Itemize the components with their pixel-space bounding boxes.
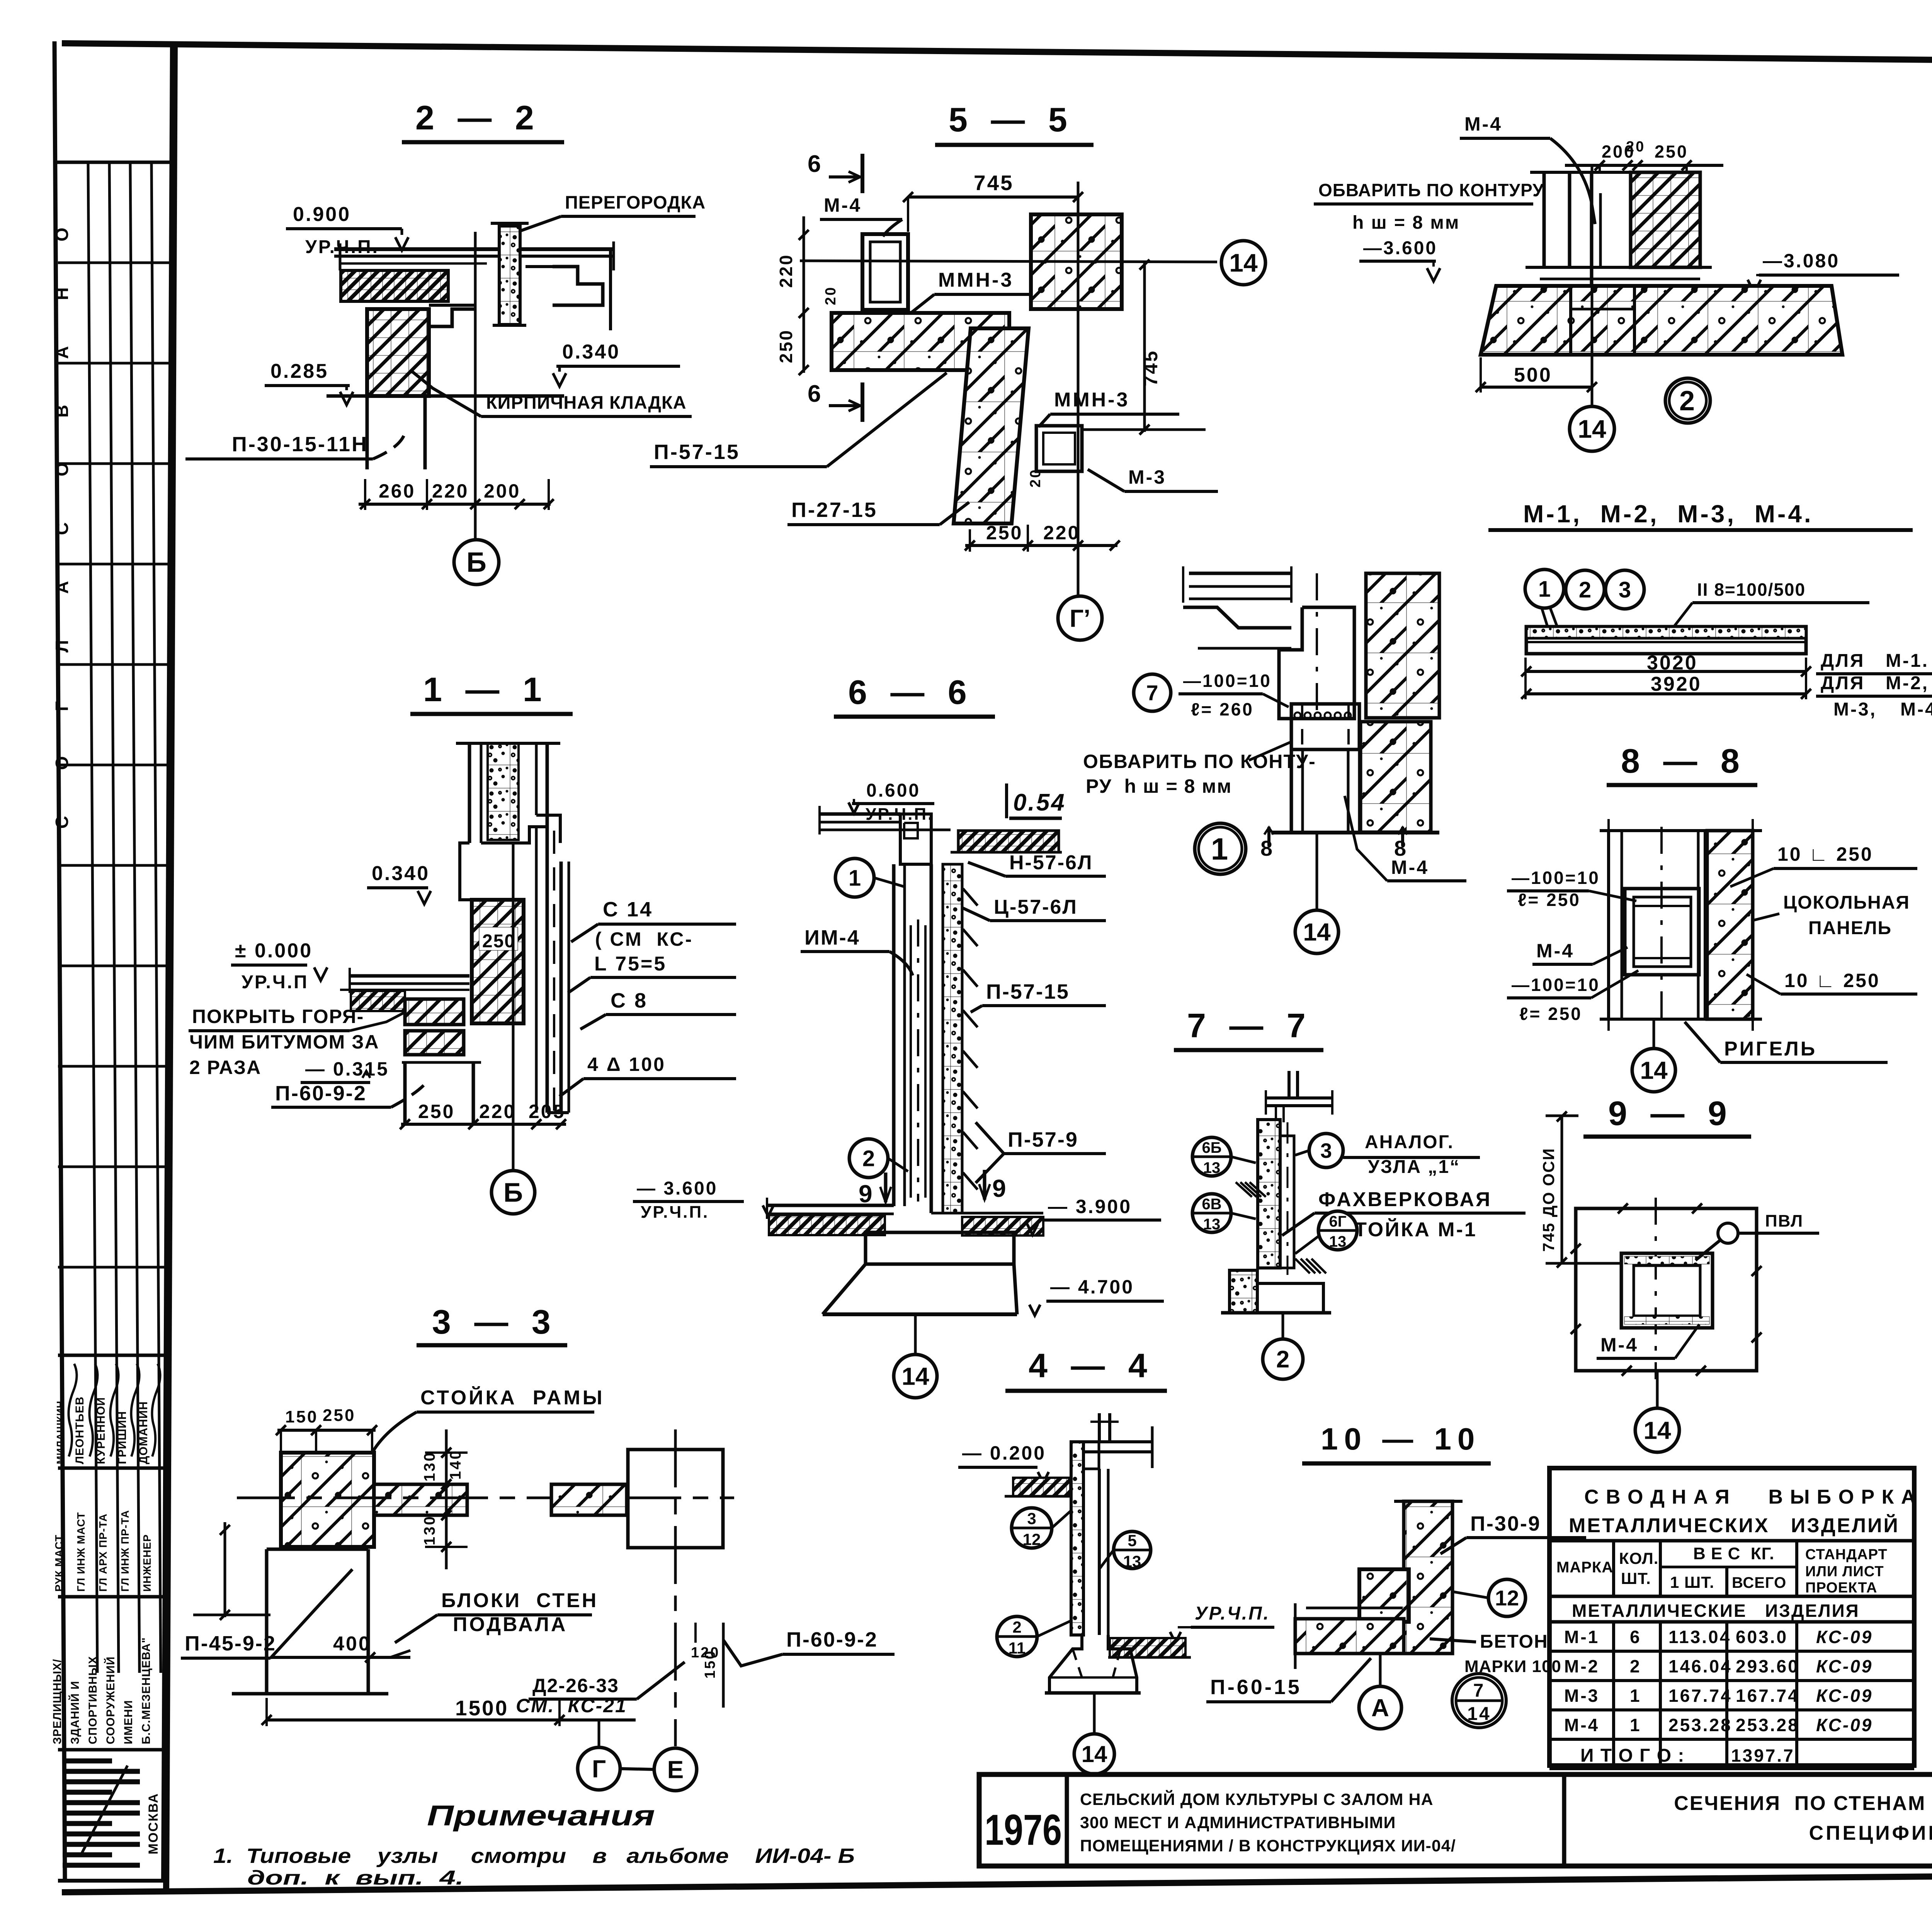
svg-text:2 — 2: 2 — 2 <box>415 99 541 137</box>
svg-text:13: 13 <box>1329 1233 1347 1250</box>
svg-text:П-60-9-2: П-60-9-2 <box>786 1628 878 1651</box>
svg-text:ГЛ ИНЖ ПР-ТА: ГЛ ИНЖ ПР-ТА <box>119 1510 131 1592</box>
svg-text:ℓ= 250: ℓ= 250 <box>1518 890 1581 910</box>
svg-text:МОСКВА: МОСКВА <box>146 1793 161 1855</box>
svg-text:ГЛ ИНЖ МАСТ: ГЛ ИНЖ МАСТ <box>75 1512 87 1592</box>
svg-text:КС-09: КС-09 <box>1816 1715 1873 1735</box>
svg-text:— 0.315: — 0.315 <box>305 1058 389 1080</box>
svg-text:Л: Л <box>52 639 72 653</box>
svg-text:ЗДАНИЙ И: ЗДАНИЙ И <box>68 1681 82 1744</box>
svg-text:М-4: М-4 <box>1536 940 1574 962</box>
svg-text:7: 7 <box>1473 1681 1485 1701</box>
svg-text:—100=10: —100=10 <box>1512 975 1600 995</box>
svg-text:7: 7 <box>1146 681 1158 705</box>
svg-text:ИЛИ ЛИСТ: ИЛИ ЛИСТ <box>1805 1564 1884 1580</box>
svg-text:С: С <box>52 521 72 535</box>
svg-text:А: А <box>52 345 72 359</box>
svg-text:БЛОКИ СТЕН: БЛОКИ СТЕН <box>441 1589 598 1612</box>
svg-text:МАРКА: МАРКА <box>1556 1559 1613 1576</box>
svg-text:СООРУЖЕНИЙ: СООРУЖЕНИЙ <box>104 1656 117 1744</box>
svg-text:ДОМАНИН: ДОМАНИН <box>137 1401 150 1464</box>
svg-text:0.900: 0.900 <box>293 203 351 226</box>
svg-text:О: О <box>52 461 72 476</box>
svg-text:М-1, М-2, М-3, М-4.: М-1, М-2, М-3, М-4. <box>1523 500 1813 528</box>
table svodnaya vyborka <box>1549 1468 1914 1766</box>
svg-text:14: 14 <box>1578 415 1606 443</box>
svg-text:ЛЕОНТЬЕВ: ЛЕОНТЬЕВ <box>73 1396 86 1464</box>
svg-text:ММН-3: ММН-3 <box>938 269 1014 291</box>
svg-text:П-45-9-2: П-45-9-2 <box>185 1632 276 1655</box>
svg-text:В Е С КГ.: В Е С КГ. <box>1693 1544 1774 1563</box>
svg-text:УР.Ч.П.: УР.Ч.П. <box>641 1203 709 1222</box>
svg-text:СЕЧЕНИЯ ПО СТЕНАМ ПОДВАЛА.: СЕЧЕНИЯ ПО СТЕНАМ ПОДВАЛА. УЗЛЫ. <box>1674 1792 1932 1815</box>
svg-text:О: О <box>52 755 72 770</box>
svg-text:6: 6 <box>808 381 822 407</box>
svg-text:ℓ= 260: ℓ= 260 <box>1191 699 1254 719</box>
svg-text:1: 1 <box>1538 576 1551 602</box>
svg-text:СМ. КС-21: СМ. КС-21 <box>516 1695 627 1716</box>
svg-text:П-30-9: П-30-9 <box>1470 1512 1541 1535</box>
svg-text:ГЛ АРХ ПР-ТА: ГЛ АРХ ПР-ТА <box>97 1513 109 1592</box>
svg-text:400: 400 <box>333 1633 371 1655</box>
svg-text:250: 250 <box>418 1101 455 1122</box>
svg-text:Б: Б <box>503 1178 523 1208</box>
svg-text:2: 2 <box>1630 1656 1641 1676</box>
svg-text:1. Типовые узлы смотри: 1. Типовые узлы смотри в альбоме ИИ-04- … <box>213 1844 855 1868</box>
svg-text:БЕТОН: БЕТОН <box>1480 1631 1548 1652</box>
svg-text:8: 8 <box>1260 836 1274 860</box>
svg-text:РИГЕЛЬ: РИГЕЛЬ <box>1724 1038 1817 1060</box>
svg-text:6Г: 6Г <box>1329 1213 1347 1230</box>
svg-text:2: 2 <box>1276 1346 1289 1373</box>
sheet frame <box>62 43 1932 66</box>
svg-text:С: С <box>52 814 72 829</box>
svg-text:УР.Ч.П.: УР.Ч.П. <box>305 237 379 257</box>
svg-text:500: 500 <box>1514 364 1552 386</box>
svg-text:А: А <box>1371 1694 1389 1722</box>
svg-text:12: 12 <box>1495 1586 1519 1610</box>
svg-text:М-4: М-4 <box>1600 1334 1638 1356</box>
svg-text:745: 745 <box>974 171 1014 195</box>
svg-text:150: 150 <box>285 1407 318 1426</box>
svg-text:14: 14 <box>901 1362 929 1390</box>
svg-text:0.340: 0.340 <box>372 862 430 885</box>
svg-text:20: 20 <box>823 286 839 305</box>
svg-text:220: 220 <box>776 253 796 288</box>
svg-text:М-4.: М-4. <box>1900 699 1932 720</box>
svg-text:Г: Г <box>52 700 72 711</box>
svg-text:14: 14 <box>1303 918 1331 946</box>
svg-text:6В: 6В <box>1202 1196 1221 1213</box>
svg-text:П-57-15: П-57-15 <box>986 980 1070 1003</box>
svg-text:М-1.: М-1. <box>1886 651 1929 671</box>
svg-text:3920: 3920 <box>1651 673 1702 695</box>
svg-text:1976: 1976 <box>985 1806 1062 1854</box>
svg-text:1: 1 <box>849 865 861 891</box>
svg-text:—3.600: —3.600 <box>1363 238 1437 258</box>
svg-text:1 ШТ.: 1 ШТ. <box>1670 1573 1714 1591</box>
svg-text:В: В <box>52 403 72 418</box>
svg-text:доп. к вып. 4.: доп. к вып. 4. <box>247 1867 464 1889</box>
svg-text:140: 140 <box>447 1449 464 1480</box>
svg-text:6: 6 <box>808 151 822 177</box>
svg-text:ДЛЯ: ДЛЯ <box>1821 673 1865 693</box>
svg-text:— 0.200: — 0.200 <box>962 1442 1046 1464</box>
svg-text:МЕТАЛЛИЧЕСКИЕ ИЗДЕЛИЯ: МЕТАЛЛИЧЕСКИЕ ИЗДЕЛИЯ <box>1572 1601 1860 1621</box>
svg-text:14: 14 <box>1229 248 1258 277</box>
svg-text:1: 1 <box>1630 1715 1641 1735</box>
svg-text:ПАНЕЛЬ: ПАНЕЛЬ <box>1808 918 1892 938</box>
svg-text:300 МЕСТ И АДМИНИСТРАТИВНЫМИ: 300 МЕСТ И АДМИНИСТРАТИВНЫМИ <box>1080 1813 1396 1832</box>
svg-text:ГРИШИН: ГРИШИН <box>116 1411 129 1464</box>
svg-text:КИРПИЧНАЯ КЛАДКА: КИРПИЧНАЯ КЛАДКА <box>486 392 687 413</box>
svg-text:П-60-15: П-60-15 <box>1210 1676 1302 1699</box>
svg-text:14: 14 <box>1640 1056 1668 1084</box>
svg-text:Г: Г <box>592 1755 606 1783</box>
svg-text:1: 1 <box>1211 832 1230 866</box>
svg-text:ЦОКОЛЬНАЯ: ЦОКОЛЬНАЯ <box>1783 892 1910 913</box>
svg-text:11: 11 <box>1009 1639 1026 1657</box>
svg-text:КУРЕННОЙ: КУРЕННОЙ <box>94 1397 107 1464</box>
svg-text:3 — 3: 3 — 3 <box>432 1303 558 1341</box>
svg-text:ПОМЕЩЕНИЯМИ / В КОНСТРУКЦИЯХ И: ПОМЕЩЕНИЯМИ / В КОНСТРУКЦИЯХ ИИ-04/ <box>1080 1837 1456 1855</box>
svg-text:Ц-57-6Л: Ц-57-6Л <box>994 896 1078 918</box>
svg-text:ℓ= 250: ℓ= 250 <box>1519 1004 1582 1024</box>
node 1 detail <box>1189 572 1291 575</box>
svg-text:— 4.700: — 4.700 <box>1050 1276 1134 1298</box>
svg-text:СТОЙКА РАМЫ: СТОЙКА РАМЫ <box>420 1386 605 1409</box>
svg-text:УР.Ч.П: УР.Ч.П <box>241 972 309 992</box>
svg-text:РУ h ш = 8 мм: РУ h ш = 8 мм <box>1086 775 1232 797</box>
svg-text:ПОДВАЛА: ПОДВАЛА <box>453 1613 567 1636</box>
svg-text:10 — 10: 10 — 10 <box>1321 1422 1481 1456</box>
svg-text:3: 3 <box>1619 577 1631 602</box>
svg-text:КОЛ.: КОЛ. <box>1619 1549 1658 1567</box>
svg-text:253.28: 253.28 <box>1668 1715 1732 1735</box>
svg-text:Б: Б <box>466 547 486 578</box>
svg-text:200: 200 <box>484 480 520 502</box>
svg-text:146.04: 146.04 <box>1668 1656 1732 1676</box>
svg-text:2: 2 <box>862 1146 875 1171</box>
svg-text:— 3.900: — 3.900 <box>1048 1196 1132 1217</box>
svg-text:—3.080: —3.080 <box>1763 250 1840 272</box>
svg-text:20: 20 <box>1027 468 1044 488</box>
svg-text:0.340: 0.340 <box>562 341 620 363</box>
svg-text:9 — 9: 9 — 9 <box>1608 1094 1734 1132</box>
svg-text:ДЛЯ: ДЛЯ <box>1821 651 1865 671</box>
svg-text:Д2-26-33: Д2-26-33 <box>532 1675 619 1696</box>
svg-text:8 — 8: 8 — 8 <box>1621 742 1747 780</box>
svg-text:ИМЕНИ: ИМЕНИ <box>122 1700 135 1744</box>
svg-text:220: 220 <box>479 1101 516 1122</box>
svg-text:130: 130 <box>421 1515 438 1545</box>
svg-text:О: О <box>52 226 72 241</box>
svg-text:5: 5 <box>1128 1531 1136 1550</box>
svg-text:КС-09: КС-09 <box>1816 1656 1873 1676</box>
svg-text:—100=10: —100=10 <box>1183 671 1272 691</box>
svg-text:РУК МАСТ: РУК МАСТ <box>53 1535 65 1592</box>
svg-text:ПВЛ: ПВЛ <box>1765 1212 1803 1230</box>
svg-text:М-4: М-4 <box>1564 1715 1599 1735</box>
svg-text:2 РАЗА: 2 РАЗА <box>189 1057 261 1078</box>
svg-text:113.04: 113.04 <box>1668 1627 1731 1647</box>
svg-text:9: 9 <box>992 1174 1008 1202</box>
svg-text:6 — 6: 6 — 6 <box>848 673 974 711</box>
svg-text:А: А <box>52 580 72 594</box>
svg-text:3: 3 <box>1027 1509 1036 1528</box>
svg-text:КС-09: КС-09 <box>1816 1686 1873 1706</box>
svg-text:0.54: 0.54 <box>1013 789 1066 816</box>
svg-text:745: 745 <box>1140 350 1162 386</box>
svg-text:250: 250 <box>986 522 1023 544</box>
svg-text:3: 3 <box>1320 1139 1332 1162</box>
svg-text:И Т О Г О :: И Т О Г О : <box>1580 1745 1685 1766</box>
svg-text:ФАХВЕРКОВАЯ: ФАХВЕРКОВАЯ <box>1318 1188 1492 1211</box>
svg-text:СТАНДАРТ: СТАНДАРТ <box>1805 1547 1888 1563</box>
svg-text:П-57-15: П-57-15 <box>654 440 740 464</box>
svg-text:250: 250 <box>1655 142 1688 161</box>
svg-text:205: 205 <box>529 1101 565 1122</box>
svg-text:13: 13 <box>1203 1159 1221 1176</box>
svg-text:С 8: С 8 <box>611 989 648 1012</box>
svg-text:П-27-15: П-27-15 <box>791 498 878 522</box>
svg-text:13: 13 <box>1203 1216 1221 1233</box>
title block <box>979 1774 1932 1866</box>
svg-text:КС-09: КС-09 <box>1816 1627 1873 1647</box>
svg-text:ИНЖЕНЕР: ИНЖЕНЕР <box>141 1534 153 1592</box>
svg-text:М-3: М-3 <box>1564 1686 1599 1706</box>
svg-text:М-4: М-4 <box>1464 113 1502 135</box>
svg-text:( СМ КС-: ( СМ КС- <box>595 928 693 950</box>
svg-text:СТОЙКА М-1: СТОЙКА М-1 <box>1339 1218 1477 1241</box>
svg-text:ОБВАРИТЬ ПО КОНТУ-: ОБВАРИТЬ ПО КОНТУ- <box>1083 751 1316 772</box>
svg-text:М-4: М-4 <box>1391 857 1429 878</box>
svg-text:ШТ.: ШТ. <box>1621 1569 1651 1587</box>
svg-text:С В О Д Н А Я В Ы Б О Р К: С В О Д Н А Я В Ы Б О Р К А <box>1584 1486 1916 1508</box>
svg-text:—100=10: —100=10 <box>1512 868 1600 888</box>
svg-text:Гʼ: Гʼ <box>1070 604 1090 632</box>
svg-text:2: 2 <box>1679 386 1696 416</box>
svg-text:С 14: С 14 <box>603 898 653 921</box>
svg-text:М-2,: М-2, <box>1886 673 1929 693</box>
svg-text:293.60: 293.60 <box>1736 1656 1799 1676</box>
svg-text:10 ∟ 250: 10 ∟ 250 <box>1777 843 1873 865</box>
svg-text:УЗЛА „1“: УЗЛА „1“ <box>1368 1157 1460 1177</box>
svg-text:ПРОЕКТА: ПРОЕКТА <box>1805 1580 1877 1596</box>
svg-text:1: 1 <box>1630 1686 1641 1706</box>
svg-text:745 ДО ОСИ: 745 ДО ОСИ <box>1539 1148 1558 1252</box>
svg-text:6: 6 <box>1630 1627 1641 1647</box>
svg-text:0.285: 0.285 <box>270 360 328 382</box>
svg-text:Примечания: Примечания <box>427 1800 655 1832</box>
svg-text:150: 150 <box>702 1650 718 1679</box>
svg-text:220: 220 <box>432 480 469 502</box>
svg-text:10 ∟ 250: 10 ∟ 250 <box>1784 970 1880 991</box>
svg-text:1 — 1: 1 — 1 <box>423 670 549 709</box>
svg-text:МИЛАШКИН: МИЛАШКИН <box>54 1400 66 1464</box>
svg-text:М-3: М-3 <box>1128 466 1166 488</box>
svg-text:М-3,: М-3, <box>1833 699 1877 720</box>
svg-text:— 3.600: — 3.600 <box>637 1178 718 1199</box>
svg-text:3020: 3020 <box>1647 652 1698 674</box>
svg-text:L 75=5: L 75=5 <box>594 953 667 975</box>
svg-text:250: 250 <box>323 1406 355 1425</box>
svg-text:253.28: 253.28 <box>1736 1715 1799 1735</box>
svg-text:167.74: 167.74 <box>1668 1686 1732 1706</box>
svg-text:603.0: 603.0 <box>1736 1627 1788 1647</box>
svg-text:0.600: 0.600 <box>866 780 920 801</box>
svg-text:II 8=100/500: II 8=100/500 <box>1697 580 1806 600</box>
svg-text:М-4: М-4 <box>824 194 862 216</box>
svg-text:9: 9 <box>859 1180 874 1208</box>
svg-text:13: 13 <box>1123 1552 1141 1570</box>
svg-text:1397.7: 1397.7 <box>1731 1745 1795 1766</box>
svg-text:Н-57-6Л: Н-57-6Л <box>1009 851 1093 874</box>
svg-text:Н: Н <box>52 286 72 300</box>
svg-text:ММН-3: ММН-3 <box>1054 389 1129 411</box>
svg-text:250: 250 <box>482 931 515 952</box>
svg-text:2: 2 <box>1579 577 1591 602</box>
svg-text:ЗРЕЛИЩНЫХ/: ЗРЕЛИЩНЫХ/ <box>51 1659 64 1744</box>
svg-text:УР.Ч.П.: УР.Ч.П. <box>1195 1603 1270 1624</box>
svg-text:5 — 5: 5 — 5 <box>949 100 1074 139</box>
svg-text:h ш = 8 мм: h ш = 8 мм <box>1352 212 1460 233</box>
svg-text:ОБВАРИТЬ ПО КОНТУРУ: ОБВАРИТЬ ПО КОНТУРУ <box>1318 180 1544 200</box>
svg-text:± 0.000: ± 0.000 <box>235 940 313 962</box>
svg-text:12: 12 <box>1023 1530 1041 1548</box>
svg-text:220: 220 <box>1043 522 1080 544</box>
svg-text:6Б: 6Б <box>1202 1139 1222 1156</box>
svg-text:2: 2 <box>1012 1618 1021 1636</box>
svg-text:ЧИМ БИТУМОМ ЗА: ЧИМ БИТУМОМ ЗА <box>189 1031 379 1053</box>
svg-text:ВСЕГО: ВСЕГО <box>1732 1574 1786 1591</box>
svg-text:СПОРТИВНЫХ: СПОРТИВНЫХ <box>87 1656 99 1744</box>
svg-text:СПЕЦИФИКАЦИИ: СПЕЦИФИКАЦИИ <box>1809 1822 1932 1844</box>
svg-text:Е: Е <box>667 1756 684 1783</box>
left stamp strip <box>54 41 65 1881</box>
svg-text:167.74: 167.74 <box>1736 1686 1799 1706</box>
svg-text:260: 260 <box>379 480 415 502</box>
svg-text:14: 14 <box>1643 1416 1671 1444</box>
svg-text:14: 14 <box>1082 1741 1107 1767</box>
svg-text:Б.С.МЕЗЕНЦЕВА": Б.С.МЕЗЕНЦЕВА" <box>140 1637 153 1744</box>
svg-text:1500: 1500 <box>455 1696 509 1720</box>
svg-text:4 — 4: 4 — 4 <box>1029 1346 1154 1385</box>
svg-text:П-57-9: П-57-9 <box>1008 1128 1078 1151</box>
svg-text:СЕЛЬСКИЙ ДОМ КУЛЬТУРЫ С ЗАЛОМ: СЕЛЬСКИЙ ДОМ КУЛЬТУРЫ С ЗАЛОМ НА <box>1080 1790 1434 1809</box>
svg-text:П-30-15-11Н: П-30-15-11Н <box>232 433 368 456</box>
svg-text:П-60-9-2: П-60-9-2 <box>275 1082 367 1105</box>
svg-text:250: 250 <box>776 329 796 363</box>
svg-text:ПЕРЕГОРОДКА: ПЕРЕГОРОДКА <box>565 192 706 212</box>
svg-text:М-2: М-2 <box>1564 1656 1599 1676</box>
svg-text:14: 14 <box>1467 1704 1491 1724</box>
svg-text:МЕТАЛЛИЧЕСКИХ ИЗДЕЛИЙ: МЕТАЛЛИЧЕСКИХ ИЗДЕЛИЙ <box>1569 1514 1900 1537</box>
svg-text:20: 20 <box>1626 139 1645 155</box>
svg-text:7 — 7: 7 — 7 <box>1187 1006 1313 1045</box>
svg-text:АНАЛОГ.: АНАЛОГ. <box>1365 1132 1454 1152</box>
svg-text:130: 130 <box>421 1451 438 1482</box>
svg-text:4 Δ 100: 4 Δ 100 <box>587 1054 666 1075</box>
svg-text:ПОКРЫТЬ ГОРЯ-: ПОКРЫТЬ ГОРЯ- <box>192 1006 364 1027</box>
svg-text:ИМ-4: ИМ-4 <box>804 926 860 949</box>
svg-text:М-1: М-1 <box>1564 1627 1599 1647</box>
